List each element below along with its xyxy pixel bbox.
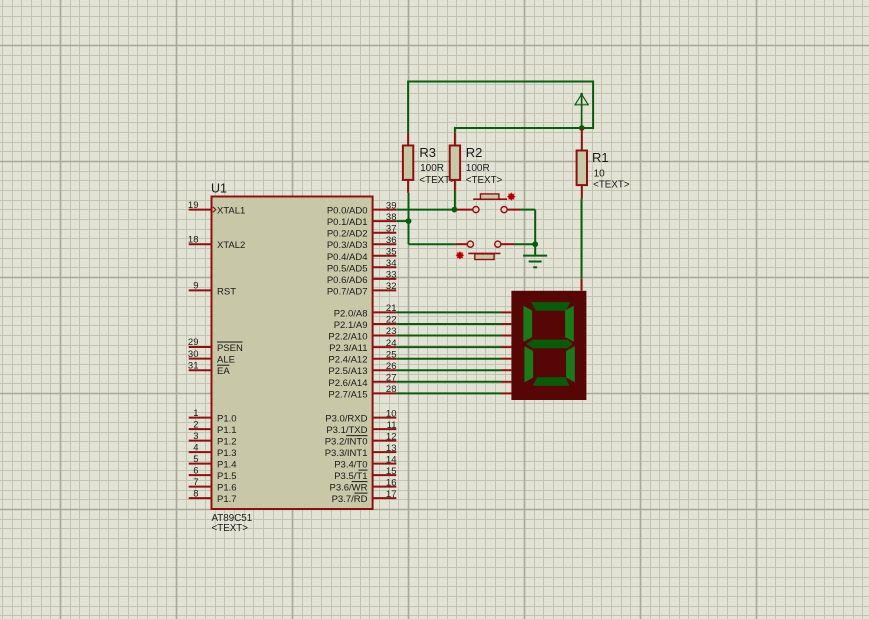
pin 33 (P0.6/AD6)	[327, 270, 397, 286]
svg-text:P0.6/AD6: P0.6/AD6	[327, 275, 368, 286]
pin 2 (P1.1)	[189, 419, 237, 436]
pin 9 (RST)	[189, 281, 236, 298]
svg-text:11: 11	[387, 420, 397, 431]
svg-text:P3.3/INT1: P3.3/INT1	[325, 448, 368, 459]
svg-text:XTAL2: XTAL2	[217, 240, 245, 251]
button 1 actuator marker	[507, 192, 516, 201]
display segment c	[566, 346, 575, 382]
junction dot R3/pin38	[406, 218, 412, 224]
svg-text:3: 3	[193, 431, 198, 442]
svg-text:37: 37	[386, 223, 397, 234]
wire: pin 28 to display seg 7	[396, 392, 511, 394]
pin 1 (P1.0)	[189, 408, 237, 425]
svg-text:100R: 100R	[466, 163, 490, 174]
svg-text:R2: R2	[466, 145, 483, 160]
svg-text:P0.5/AD5: P0.5/AD5	[327, 263, 368, 274]
svg-text:4: 4	[193, 442, 198, 453]
pin 24 (P2.3/A11)	[329, 338, 396, 354]
svg-text:100R: 100R	[420, 163, 444, 174]
ground symbol	[523, 244, 547, 267]
svg-text:U1: U1	[211, 182, 227, 196]
svg-text:23: 23	[386, 326, 397, 337]
svg-text:36: 36	[386, 235, 397, 246]
svg-text:P3.6/WR: P3.6/WR	[329, 483, 367, 494]
svg-text:P2.0/A8: P2.0/A8	[334, 308, 368, 319]
display segment g	[527, 340, 573, 349]
svg-text:7: 7	[193, 477, 198, 488]
svg-text:10: 10	[594, 168, 606, 179]
display segment d	[533, 377, 570, 386]
pushbutton 2	[467, 241, 501, 259]
chip U1 body	[212, 197, 373, 510]
wire: pin 24 to display seg 3	[396, 346, 511, 348]
svg-text:P2.6/A14: P2.6/A14	[328, 378, 367, 389]
pin 32 (P0.7/AD7)	[327, 281, 397, 297]
svg-text:PSEN: PSEN	[217, 343, 243, 354]
wire: pin 27 to display seg 6	[396, 381, 511, 383]
svg-text:<TEXT>: <TEXT>	[593, 180, 630, 191]
pin 16 (P3.6/WR)	[329, 477, 396, 493]
pin 21 (P2.0/A8)	[334, 303, 397, 319]
svg-text:12: 12	[386, 431, 397, 442]
svg-text:P3.4/T0: P3.4/T0	[334, 460, 367, 471]
R3 TEXT placeholder	[419, 175, 456, 186]
pin 13 (P3.3/INT1)	[325, 443, 397, 459]
svg-text:P1.6: P1.6	[217, 483, 237, 494]
svg-text:2: 2	[193, 419, 198, 430]
pin 23 (P2.2/A10)	[328, 326, 396, 342]
svg-text:P0.4/AD4: P0.4/AD4	[327, 252, 368, 263]
pin 30 (ALE)	[188, 349, 235, 366]
svg-text:<TEXT>: <TEXT>	[212, 523, 249, 534]
R2 label	[466, 145, 483, 160]
svg-text:19: 19	[188, 200, 199, 211]
pin 17 (P3.7/RD)	[332, 489, 397, 505]
svg-text:1: 1	[193, 408, 198, 419]
R2 TEXT placeholder	[466, 175, 503, 186]
pin 22 (P2.1/A9)	[334, 315, 397, 331]
pin 14 (P3.4/T0)	[334, 454, 396, 470]
svg-text:P0.3/AD3: P0.3/AD3	[327, 240, 368, 251]
svg-text:R3: R3	[419, 145, 436, 160]
svg-text:EA: EA	[217, 366, 230, 377]
svg-text:P2.7/A15: P2.7/A15	[328, 389, 367, 400]
wire: pin 26 to display seg 5	[396, 369, 511, 371]
resistor R3	[403, 133, 413, 193]
power symbol (VCC arrow)	[575, 93, 588, 128]
svg-text:P3.0/RXD: P3.0/RXD	[325, 414, 367, 425]
svg-text:P1.7: P1.7	[217, 494, 237, 505]
svg-text:17: 17	[386, 489, 397, 500]
wire: pin 22 to display seg 1	[396, 323, 511, 325]
svg-text:P3.1/TXD: P3.1/TXD	[326, 425, 367, 436]
svg-text:P3.7/RD: P3.7/RD	[332, 494, 368, 505]
svg-text:5: 5	[193, 454, 198, 465]
svg-text:P1.5: P1.5	[217, 471, 237, 482]
wire: pin 25 to display seg 4	[396, 358, 511, 360]
svg-text:9: 9	[193, 281, 198, 292]
svg-text:24: 24	[386, 338, 397, 349]
svg-text:39: 39	[386, 200, 397, 211]
svg-text:P3.2/INT0: P3.2/INT0	[325, 437, 368, 448]
svg-text:P1.4: P1.4	[217, 460, 237, 471]
wire: pin39 to button1 left	[396, 209, 473, 211]
chip TEXT placeholder	[212, 523, 249, 534]
pin 27 (P2.6/A14)	[328, 373, 396, 389]
svg-text:P2.3/A11: P2.3/A11	[329, 343, 367, 354]
pin 3 (P1.2)	[189, 431, 237, 448]
pin 8 (P1.7)	[189, 488, 237, 505]
R1 value 10	[594, 168, 606, 179]
junction dot R2/pin39	[452, 207, 458, 213]
svg-text:6: 6	[193, 465, 198, 476]
wire: button2 right to ground node	[501, 243, 535, 245]
svg-text:10: 10	[386, 408, 397, 419]
wire: pin38 stub to R3 vertical	[396, 220, 408, 222]
wire: R3 bottom vertical to bottom button row	[408, 193, 410, 244]
svg-text:25: 25	[386, 349, 397, 360]
svg-text:26: 26	[386, 361, 397, 372]
svg-text:30: 30	[188, 349, 199, 360]
pin 39 (P0.0/AD0)	[327, 200, 397, 216]
pin 12 (P3.2/INT0)	[325, 431, 397, 447]
svg-text:8: 8	[193, 488, 198, 499]
display segment a	[531, 302, 570, 311]
R3 label	[419, 145, 436, 160]
wire: top horizontal net VCC	[408, 82, 593, 133]
svg-text:35: 35	[386, 247, 397, 258]
pin 34 (P0.5/AD5)	[327, 258, 397, 274]
pin 5 (P1.4)	[189, 454, 237, 471]
pin 29 (PSEN)	[188, 337, 243, 354]
wire: R2 bottom to node on pin39	[454, 191, 456, 210]
junction dot at VCC / R1	[579, 125, 585, 131]
U1 reference label	[211, 182, 227, 196]
svg-text:P0.2/AD2: P0.2/AD2	[327, 229, 368, 240]
AT89C51 value label	[212, 513, 253, 524]
svg-text:XTAL1: XTAL1	[217, 206, 245, 217]
pin 37 (P0.2/AD2)	[327, 223, 397, 239]
svg-text:31: 31	[188, 360, 199, 371]
svg-text:ALE: ALE	[217, 355, 235, 366]
svg-text:P2.1/A9: P2.1/A9	[334, 320, 368, 331]
pushbutton 1	[473, 194, 507, 213]
pin 26 (P2.5/A13)	[328, 361, 396, 377]
svg-text:P1.0: P1.0	[217, 414, 237, 425]
pin 28 (P2.7/A15)	[328, 384, 396, 400]
pin 35 (P0.4/AD4)	[327, 247, 397, 263]
button 2 actuator marker	[456, 251, 465, 260]
svg-text:P2.4/A12: P2.4/A12	[328, 355, 367, 366]
svg-text:<TEXT>: <TEXT>	[466, 175, 503, 186]
svg-text:21: 21	[386, 303, 397, 314]
pin 25 (P2.4/A12)	[328, 349, 396, 365]
display segment e	[524, 346, 533, 382]
svg-text:15: 15	[386, 466, 397, 477]
pin 15 (P3.5/T1)	[334, 466, 396, 482]
svg-text:22: 22	[386, 315, 397, 326]
wire: pin 23 to display seg 2	[396, 335, 511, 337]
pin 31 (EA)	[188, 360, 230, 377]
svg-text:27: 27	[386, 373, 397, 384]
svg-text:28: 28	[386, 384, 397, 395]
pin 18 (XTAL2)	[188, 234, 245, 251]
wire: pin 21 to display seg 0	[396, 311, 511, 313]
pin 11 (P3.1/TXD)	[326, 420, 396, 436]
svg-text:32: 32	[386, 281, 397, 292]
7-segment display body	[511, 291, 586, 400]
svg-text:38: 38	[386, 212, 397, 223]
pin 36 (P0.3/AD3)	[327, 235, 397, 251]
wire: R1 bottom to display	[581, 198, 583, 290]
svg-text:P1.3: P1.3	[217, 448, 237, 459]
wire: button1 right to ground riser	[507, 210, 535, 245]
wire: bottom row to button2 left	[409, 243, 468, 245]
svg-text:P3.5/T1: P3.5/T1	[334, 471, 367, 482]
junction dot ground node	[532, 241, 538, 247]
R1 label	[592, 150, 609, 165]
svg-text:13: 13	[386, 443, 397, 454]
pin 6 (P1.5)	[189, 465, 237, 482]
svg-text:P0.0/AD0: P0.0/AD0	[327, 206, 368, 217]
resistor R1	[577, 128, 587, 198]
svg-text:P1.2: P1.2	[217, 437, 237, 448]
svg-text:33: 33	[386, 270, 397, 281]
R3 value 100R	[420, 163, 444, 174]
svg-text:P0.1/AD1: P0.1/AD1	[327, 217, 368, 228]
pin 4 (P1.3)	[189, 442, 237, 459]
svg-text:P1.1: P1.1	[217, 425, 237, 436]
R2 value 100R	[466, 163, 490, 174]
svg-text:P2.5/A13: P2.5/A13	[328, 366, 367, 377]
svg-text:14: 14	[386, 454, 397, 465]
pin 19 (XTAL1)	[188, 200, 245, 217]
resistor R2	[450, 133, 460, 191]
R1 TEXT placeholder	[593, 180, 630, 191]
svg-text:R1: R1	[592, 150, 609, 165]
XTAL1 clock marker	[213, 207, 216, 213]
display segment f	[523, 306, 532, 342]
svg-text:16: 16	[386, 477, 397, 488]
svg-text:34: 34	[386, 258, 397, 269]
svg-text:RST: RST	[217, 286, 236, 297]
svg-text:P2.2/A10: P2.2/A10	[328, 332, 367, 343]
pin 7 (P1.6)	[189, 477, 237, 494]
svg-text:29: 29	[188, 337, 199, 348]
pin 38 (P0.1/AD1)	[327, 212, 397, 228]
svg-text:P0.7/AD7: P0.7/AD7	[327, 286, 368, 297]
svg-text:18: 18	[188, 234, 199, 245]
display segment b	[565, 306, 574, 342]
pin 10 (P3.0/RXD)	[325, 408, 396, 424]
